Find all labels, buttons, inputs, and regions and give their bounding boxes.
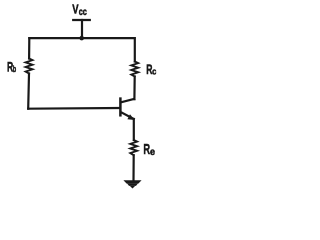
svg-text:c: c bbox=[152, 67, 156, 78]
svg-text:e: e bbox=[150, 147, 155, 158]
label Vcc bbox=[72, 2, 87, 18]
Vcc supply bar bbox=[73, 19, 90, 21]
wire right rail upper bbox=[134, 38, 136, 61]
wire base bbox=[28, 107, 119, 110]
resistor Re bbox=[130, 140, 137, 155]
transistor Q1 base bar bbox=[119, 99, 122, 116]
transistor Q1 emitter lead bbox=[121, 112, 134, 119]
wire to ground bbox=[132, 155, 134, 181]
ground bbox=[123, 180, 141, 188]
wire emitter vertical bbox=[133, 119, 135, 140]
transistor Q1 collector lead bbox=[121, 99, 134, 103]
wire top rail bbox=[29, 37, 134, 39]
resistor Rb bbox=[26, 59, 33, 74]
svg-text:cc: cc bbox=[79, 7, 88, 18]
transistor Q1 emitter arrowhead bbox=[127, 114, 134, 120]
svg-text:b: b bbox=[13, 64, 17, 74]
wire left rail upper bbox=[28, 38, 30, 58]
label Re bbox=[143, 142, 155, 158]
node junction dot bbox=[79, 36, 84, 41]
label Rc bbox=[146, 62, 156, 78]
wire collector vertical bbox=[133, 77, 136, 100]
label Rb bbox=[7, 60, 17, 75]
resistor Rc bbox=[131, 62, 138, 77]
wire Vcc stem bbox=[81, 20, 83, 38]
wire left rail lower bbox=[27, 74, 30, 109]
